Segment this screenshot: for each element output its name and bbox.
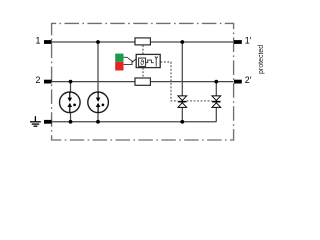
resistor R1	[135, 38, 150, 45]
svg-text:ϑ: ϑ	[140, 58, 144, 67]
actuator pin	[155, 58, 157, 66]
svg-text:1′: 1′	[245, 36, 252, 46]
wire GDT F2 vertical	[97, 42, 99, 122]
dashed link resistor R1 to thermal device	[142, 45, 144, 54]
dashed link thermal device to diodes	[160, 62, 178, 101]
terminal 1	[44, 40, 52, 44]
junction dot bus/diode D1	[180, 120, 184, 124]
junction dot line2/GDT F1	[69, 80, 73, 84]
status indicator (green/red)	[115, 54, 123, 62]
junction dot bus/GDT F2	[96, 120, 100, 124]
suppressor diode D2	[212, 96, 221, 108]
svg-text:protected: protected	[258, 45, 265, 74]
terminal ground	[44, 120, 52, 124]
wire line 1	[52, 41, 234, 43]
junction dot line2/diode D2	[214, 80, 218, 84]
wire ground bus	[52, 121, 217, 123]
wire diode D1 vertical	[181, 42, 183, 122]
terminal 2	[44, 80, 52, 84]
svg-text:2′: 2′	[245, 75, 252, 85]
junction dot bus/GDT F1	[69, 120, 73, 124]
resistor R2	[135, 78, 150, 85]
terminal 1'	[234, 40, 242, 44]
ground symbol	[30, 116, 41, 126]
terminal 2'	[234, 80, 242, 84]
device outline (dash-dot border)	[52, 23, 234, 140]
wire diode D2 vertical	[215, 82, 217, 122]
dashed link thermal device to resistor R2	[142, 68, 144, 78]
suppressor diode D1	[178, 96, 187, 108]
gas discharge tube F2	[88, 92, 109, 113]
svg-text:1: 1	[35, 36, 40, 46]
step waveform symbol	[146, 60, 154, 63]
svg-text:2: 2	[35, 75, 40, 85]
indicator contact linkage	[124, 57, 137, 64]
junction dot line1/GDT F2	[96, 40, 100, 44]
wire GDT F1 vertical	[70, 82, 72, 122]
junction dot line1/diode D1	[180, 40, 184, 44]
gas discharge tube F1	[60, 92, 81, 113]
thermal disconnect device U1	[136, 54, 160, 67]
wire line 2	[52, 81, 234, 83]
dashed link between diodes	[187, 100, 213, 102]
